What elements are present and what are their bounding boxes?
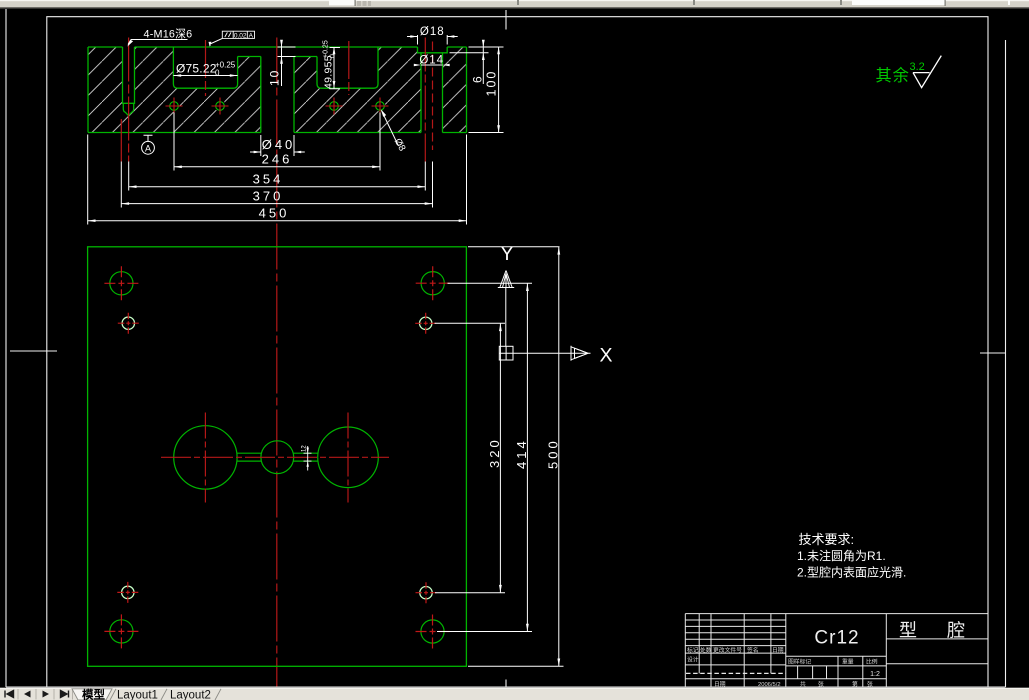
centering tick right (980, 352, 1006, 354)
dim 49.955 line (330, 47, 341, 89)
svg-text:4-M16深6: 4-M16深6 (144, 28, 193, 41)
section cooling hole masks (169, 101, 386, 112)
UCS stem X (513, 352, 571, 354)
ext line hole bottom right small (435, 592, 505, 594)
svg-text:Layout2: Layout2 (170, 689, 211, 700)
dim text Ø75.22 (176, 61, 236, 78)
dim 414 line (526, 283, 528, 631)
svg-text:设计: 设计 (687, 656, 699, 664)
dim 100 ext and line (469, 47, 504, 133)
ext line hole bottom right big (437, 631, 532, 633)
dim Ø14 line (421, 64, 443, 66)
dim 6 ext and line (450, 40, 489, 84)
dim text 49.955 rotated (323, 40, 337, 89)
svg-text:处数: 处数 (700, 646, 712, 654)
svg-text:12: 12 (302, 445, 308, 452)
svg-text:+0.25: +0.25 (323, 40, 330, 58)
svg-text:0: 0 (330, 54, 337, 58)
svg-text:49.955: 49.955 (323, 55, 335, 89)
ext line hole top right big (448, 282, 533, 284)
dim 370 ext and line (121, 162, 432, 208)
plan dim arrowheads (499, 247, 560, 667)
svg-text:10: 10 (268, 69, 282, 86)
dim 354 ext and line (129, 162, 426, 191)
svg-text:图样标记: 图样标记 (788, 658, 811, 666)
svg-text:A: A (145, 143, 151, 153)
svg-text:张: 张 (818, 680, 824, 688)
cooling hole circles (170, 102, 385, 111)
dim Ø40 ext and line (250, 135, 305, 156)
svg-text:其余: 其余 (876, 66, 910, 85)
plan plate outline (88, 247, 467, 667)
svg-text:1:2: 1:2 (870, 671, 880, 678)
svg-text:2006/5/2: 2006/5/2 (758, 682, 781, 688)
svg-text:Ø18: Ø18 (420, 26, 445, 38)
paper edge right (1005, 40, 1007, 687)
UCS X arrow (571, 346, 588, 361)
svg-text:1.未注圆角为R1.: 1.未注圆角为R1. (797, 548, 886, 563)
toolbar strip top (0, 0, 1029, 8)
svg-text:技术要求:: 技术要求: (799, 532, 855, 547)
cavity pocket left (Ø75.22) (173, 47, 237, 88)
roughness symbol (913, 56, 941, 88)
svg-text:标记: 标记 (687, 646, 699, 654)
dim 246 ext and line (174, 113, 380, 171)
title block small texts (687, 646, 878, 688)
svg-text:Y: Y (500, 243, 513, 265)
svg-text:X: X (599, 345, 612, 367)
dim texts section (253, 137, 296, 221)
ext line plate top (468, 246, 560, 248)
section outline (88, 47, 467, 133)
parallelism tolerance frame (222, 31, 254, 39)
svg-text:模型: 模型 (82, 687, 105, 700)
UCS icon Y arrow (498, 271, 591, 361)
svg-text:6: 6 (471, 76, 485, 83)
dimension arrowheads section (88, 35, 500, 222)
svg-text:450: 450 (259, 206, 290, 221)
svg-text:370: 370 (253, 189, 284, 204)
svg-text:320: 320 (487, 437, 502, 468)
model tab active (72, 689, 112, 700)
title block dashed row (686, 672, 786, 674)
runner floor left (238, 56, 261, 58)
svg-text:型: 型 (899, 621, 917, 641)
svg-text:更改文件号: 更改文件号 (713, 646, 742, 654)
centering tick left (10, 350, 57, 352)
cavity centerline horizontal (161, 456, 389, 458)
title block grid (685, 614, 988, 687)
main vertical centerline (276, 38, 278, 687)
dim Ø18 ext and line (407, 35, 458, 45)
svg-text:腔: 腔 (947, 621, 965, 641)
leader parallelism (210, 38, 222, 46)
svg-text:Cr12: Cr12 (814, 628, 859, 649)
svg-text:张: 张 (867, 680, 873, 688)
section centerlines red (121, 38, 432, 162)
svg-text:0.02: 0.02 (234, 32, 247, 39)
cavity centerline right vertical (347, 413, 349, 503)
cavity circle middle (261, 441, 294, 474)
svg-text:签名: 签名 (747, 646, 759, 654)
centering tick top (505, 10, 507, 30)
svg-text:2.型腔内表面应光滑.: 2.型腔内表面应光滑. (797, 565, 906, 580)
svg-text:414: 414 (514, 438, 529, 469)
paper edge left (5, 9, 7, 687)
svg-text:第: 第 (852, 680, 858, 688)
svg-text:354: 354 (253, 172, 284, 187)
svg-text:246: 246 (262, 152, 293, 167)
ext line plate bottom (468, 665, 564, 667)
cavity circle right (318, 427, 379, 488)
svg-text:0: 0 (215, 69, 220, 78)
svg-text:比例: 比例 (866, 658, 878, 666)
tab bar (0, 687, 1029, 700)
UCS stem Y (505, 288, 507, 347)
dim 500 line (558, 247, 560, 667)
dim 10 line (278, 40, 296, 86)
counterbore Ø18 (418, 47, 448, 53)
runner width mini dim (304, 446, 312, 471)
svg-text:A: A (249, 32, 254, 39)
cavity circle left (174, 426, 237, 489)
svg-text:500: 500 (546, 438, 561, 469)
svg-text:Ø14: Ø14 (419, 55, 444, 67)
centering tick bottom (505, 680, 507, 688)
cavity centerline left vertical (204, 413, 206, 503)
svg-text:Layout1: Layout1 (117, 689, 158, 700)
svg-text:Ø75.22: Ø75.22 (176, 62, 217, 76)
svg-text:3.2: 3.2 (910, 61, 925, 73)
runner floor right (294, 56, 317, 58)
svg-text:重量: 重量 (842, 658, 854, 666)
plan screw holes small (122, 317, 433, 599)
nav buttons (5, 691, 69, 698)
cavity pocket right (317, 47, 378, 88)
svg-text:日期: 日期 (714, 681, 726, 688)
hole Ø14 walls (421, 53, 443, 133)
tapped hole M16 (123, 47, 135, 116)
dim 320 line (499, 323, 501, 592)
datum A stem (144, 135, 153, 141)
UCS box (499, 346, 513, 360)
plan bolt holes big (110, 272, 445, 644)
svg-text:共: 共 (800, 680, 806, 688)
dim 450 ext and line (88, 135, 467, 225)
svg-text:Ø40: Ø40 (262, 137, 296, 152)
datum A circle (142, 141, 155, 154)
tech requirements text (797, 532, 906, 580)
svg-text:日期: 日期 (772, 647, 784, 654)
runner channel lines (237, 453, 318, 461)
ext line hole top right small (435, 322, 506, 324)
cooling hole crosshairs (166, 98, 389, 115)
leader cooling hole (382, 111, 399, 147)
sprue hole Ø40 walls (261, 57, 294, 133)
plan hole crosshairs (104, 266, 449, 648)
dim Ø75.22 line (173, 75, 237, 77)
leader 4-M16 (128, 40, 188, 45)
frame bottom line (6, 686, 1006, 688)
layout1 tab (110, 689, 116, 700)
svg-text:100: 100 (485, 70, 499, 97)
section hatch areas (88, 47, 467, 133)
